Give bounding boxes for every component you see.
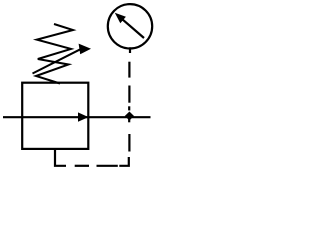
gauge stub connector [129,47,131,53]
flow arrowhead [78,112,89,121]
gauge needle arrowhead [115,13,126,23]
pilot line bottom dash 2 [75,165,89,167]
pilot line bottom-left corner (to box bottom) [55,149,66,166]
node stub below [128,119,130,122]
regulator body box [22,83,88,149]
spring adjustment arrowhead [79,44,91,55]
gauge needle shaft [123,19,145,38]
pilot line bottom dash 1 [97,165,118,167]
junction node (diamond) [125,112,134,121]
pilot line bottom-right corner [119,157,129,166]
pilot line dash (gauge to node) 1 [128,62,130,78]
gauge circle [108,4,152,48]
spring adjustment arrow shaft [33,49,81,73]
pilot line dash (node to bottom) [128,134,130,152]
node stub above [128,106,130,110]
pilot line dash (gauge to node) 2 [128,86,130,103]
spring (zigzag) [36,24,73,84]
flow line (main horizontal) [3,116,151,118]
